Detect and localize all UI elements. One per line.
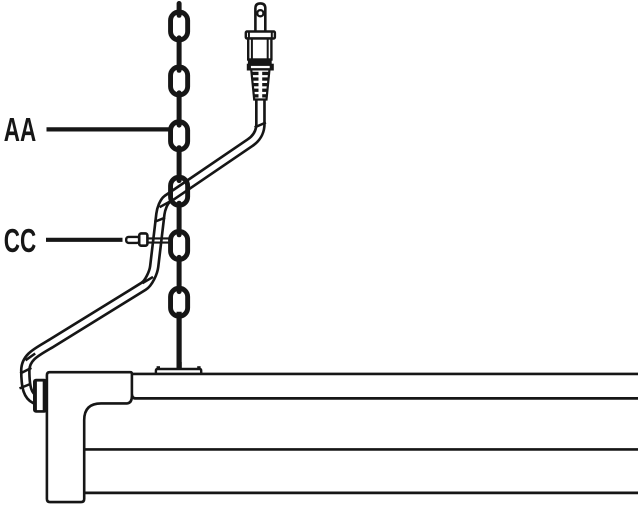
cord segment tick A (upper bend) <box>255 123 266 128</box>
cord segment tick C <box>154 218 165 222</box>
chain link 5 <box>171 231 188 259</box>
cord segment tick E (lower bend) <box>26 354 36 361</box>
chain mount plate <box>156 369 201 375</box>
label AA <box>4 111 36 148</box>
plug top flange <box>246 32 275 39</box>
chain connector wire 5-6 <box>177 257 182 291</box>
chain hanger wire top stub <box>177 4 182 16</box>
fixture bottom edge <box>84 491 638 494</box>
chain link 3 <box>171 122 188 150</box>
plug lower flange <box>247 64 273 70</box>
clamp pin CC : threaded band <box>147 238 169 242</box>
chain connector wire 4-5 <box>177 203 182 235</box>
plug blade <box>255 3 265 33</box>
chain wire into plate <box>177 362 182 369</box>
chain connector wire 3-4 <box>177 148 182 181</box>
fixture end cap <box>47 372 132 502</box>
fixture front top edge <box>132 395 638 399</box>
label CC <box>4 221 36 258</box>
chain connector wire 2-3 <box>177 93 182 125</box>
plug dark band <box>248 59 272 64</box>
cord segment tick D <box>142 277 153 283</box>
chain bottom wire to mount <box>177 312 182 371</box>
chain link 2 <box>171 67 188 95</box>
cord segment tick G <box>20 384 31 388</box>
plug strain-relief boot <box>251 69 269 99</box>
fixture top back edge <box>132 373 638 376</box>
chain connector wire 1-2 <box>177 38 182 70</box>
power cord <box>25 97 260 400</box>
svg-text:CC: CC <box>4 221 36 258</box>
plug blade hole <box>257 10 263 16</box>
cord connector on end cap <box>33 379 47 413</box>
cord segment tick B <box>160 200 172 207</box>
chain link 1 <box>171 12 188 40</box>
chain mount plate end tabs <box>157 366 201 370</box>
chain link 4 <box>171 177 188 205</box>
chain link 6 <box>171 288 188 316</box>
clamp pin CC : shaft <box>126 237 139 243</box>
leader line CC <box>46 238 123 242</box>
plug body <box>248 39 271 60</box>
fixture mid line <box>84 448 638 451</box>
leader line AA <box>47 127 169 131</box>
svg-text:AA: AA <box>4 111 36 148</box>
cord segment tick F <box>20 368 31 374</box>
clamp pin CC : nut <box>139 233 147 245</box>
